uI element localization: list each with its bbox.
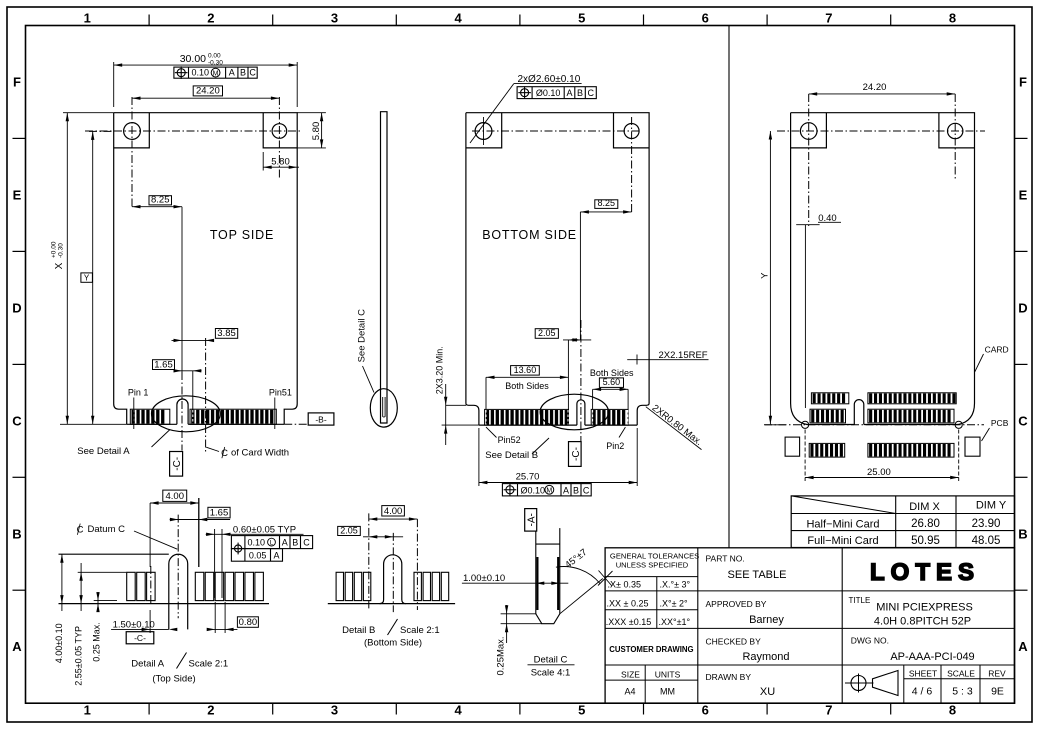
svg-text:B: B [577,88,583,98]
svg-text:CARD: CARD [985,344,1009,354]
top side holes horizontal centerline [85,130,302,132]
svg-text:(Bottom Side): (Bottom Side) [364,637,422,648]
detail C card edge profile [535,531,537,614]
svg-text:1.65: 1.65 [210,508,229,519]
dim 3.85 top side [215,329,237,339]
dim 4.00 +-0.10 left vertical [61,554,63,611]
pcb support block left [785,437,800,456]
svg-text:13.60: 13.60 [514,365,537,375]
svg-text:Y: Y [760,272,771,279]
zone row letters [12,75,1028,655]
svg-text:Y: Y [84,273,90,282]
tolerance block lines [605,576,698,578]
svg-text:3.85: 3.85 [217,328,236,339]
dim 45 deg chamfer [560,579,603,614]
detail B ellipse bottom side [540,394,608,430]
svg-text:1: 1 [84,11,91,26]
top side hole centerline left vertical [131,97,133,207]
svg-text:1.65: 1.65 [154,359,173,370]
svg-text:C: C [583,485,590,495]
svg-text:DRAWN BY: DRAWN BY [706,672,752,682]
detail A ellipse top side [152,396,221,432]
svg-text:9E: 9E [991,686,1004,698]
svg-text:C: C [12,413,22,428]
svg-text:0.05: 0.05 [249,551,267,561]
svg-text:-B-: -B- [315,414,327,424]
svg-text:4.00: 4.00 [384,506,403,517]
svg-text:0.10: 0.10 [192,68,210,78]
svg-text:F: F [1019,75,1027,90]
detail C ellipse on side view [370,389,397,427]
pcb pads left group [809,443,845,457]
svg-text:7: 7 [825,703,832,718]
detail A slot centerline [177,515,179,619]
svg-text:8: 8 [949,703,956,718]
svg-text:30.00: 30.00 [180,53,206,65]
bottom side hole left [475,123,492,140]
svg-text:0.00: 0.00 [208,53,221,60]
top side hole centerline right vertical [278,97,280,180]
detail B pin centerline left [368,513,370,610]
svg-text:26.80: 26.80 [911,518,940,530]
datum -C- box top side [170,452,183,477]
dim 8.25 bottom side [595,200,618,209]
svg-text:6: 6 [702,11,709,26]
top side card bottom edge [127,423,177,425]
svg-text:MINI PCIEXPRESS: MINI PCIEXPRESS [876,602,973,614]
svg-text:4.00: 4.00 [166,491,185,502]
svg-text:Detail A: Detail A [131,658,164,669]
svg-text:8.25: 8.25 [598,198,616,208]
dim 0.25 Max left vertical [94,600,117,602]
title block outline [605,548,1014,703]
right view hole right [948,123,963,138]
bottom side mounting tab left [466,113,502,148]
svg-text:C: C [303,538,310,548]
svg-text:1: 1 [84,703,91,718]
detail A key slot [169,554,188,629]
right view card pads lower row left [810,409,846,423]
dim 1.65 top side [153,360,175,370]
svg-text:1.50±0.10: 1.50±0.10 [113,619,155,630]
dim 0.80 detail A [237,617,258,628]
svg-text:Detail C: Detail C [534,655,568,666]
0.40 offset line [804,225,806,408]
svg-text:4 / 6: 4 / 6 [912,686,933,698]
detail B pins left group [336,572,343,600]
svg-text:Both Sides: Both Sides [505,381,549,391]
svg-text:C: C [249,68,256,78]
svg-text:X: X [54,262,65,269]
svg-text:Scale 2:1: Scale 2:1 [400,625,440,636]
svg-text:A: A [229,68,235,78]
title block column dividers [697,548,699,703]
svg-text:+0.00: +0.00 [51,241,58,258]
svg-text:APPROVED BY: APPROVED BY [706,599,767,609]
svg-text:Pin52: Pin52 [498,435,521,445]
dim Y vertical line [92,131,94,424]
svg-text:D: D [1018,300,1027,315]
svg-text:CUSTOMER DRAWING: CUSTOMER DRAWING [609,645,693,654]
svg-text:MM: MM [660,687,675,697]
dim 13.60 bottom side [511,366,540,376]
bottom side hole right [624,124,639,139]
svg-text:.XX ± 0.25: .XX ± 0.25 [607,598,649,608]
svg-text:CHECKED BY: CHECKED BY [706,636,762,646]
side view card profile [381,112,388,423]
bottom side card bottom edge [479,424,577,426]
svg-text:24.20: 24.20 [863,82,887,93]
fcf 25.70 position frame [502,484,591,496]
svg-text:1.00±0.10: 1.00±0.10 [463,573,505,584]
svg-text:A: A [566,88,572,98]
datum -A- box detail C [525,509,537,531]
svg-text:E: E [13,187,22,202]
dim 1.65 detail A [208,507,230,518]
right view mounting tab right [939,113,975,148]
svg-text:0.25 Max.: 0.25 Max. [92,622,102,662]
right view corner circle left [802,421,809,428]
top side key slot [177,399,188,424]
dim 2XR0.80 Max leader [646,407,702,450]
pcb top centerline right view [764,424,984,426]
svg-text:6: 6 [702,703,709,718]
svg-text:Ø0.10: Ø0.10 [536,88,561,98]
svg-text:Pin51: Pin51 [269,388,292,398]
dim 30.00 top side [113,62,115,107]
top side card outline [114,113,298,425]
svg-text:Ø0.10: Ø0.10 [521,485,546,495]
svg-text:48.05: 48.05 [972,535,1001,547]
svg-text:Pin 1: Pin 1 [128,388,149,398]
svg-text:LOTES: LOTES [870,559,980,586]
datum -C- box detail A [126,632,154,644]
svg-text:SCALE: SCALE [947,669,975,679]
dim 4.00 detail B [382,506,405,516]
dim Y boxed label [81,273,93,282]
dim 2.05 detail B [338,526,361,535]
top side mounting tab left [114,113,150,148]
svg-text:SIZE: SIZE [621,669,640,679]
pin51 leader white overlay [274,410,276,424]
bottom side hole left vertical tick [483,117,485,145]
svg-text:24.20: 24.20 [196,86,220,97]
svg-text:2X3.20 Min.: 2X3.20 Min. [434,346,444,394]
svg-text:Scale 2:1: Scale 2:1 [189,658,229,669]
detail B baseline card edge [328,603,455,605]
svg-text:.X°± 2°: .X°± 2° [660,598,689,608]
svg-text:2: 2 [207,703,214,718]
svg-text:2: 2 [207,11,214,26]
detail A pins right group [195,572,204,600]
svg-text:B: B [12,526,21,541]
svg-text:A: A [273,551,279,561]
right column row lines [842,590,1014,592]
svg-text:REV: REV [988,669,1006,679]
svg-text:See Detail B: See Detail B [485,450,538,461]
dim Y top side extension [89,130,114,132]
svg-text:8: 8 [949,11,956,26]
top side hole left [124,123,141,140]
svg-text:25.70: 25.70 [516,472,540,483]
svg-text:0.10: 0.10 [248,538,266,548]
svg-text:4.00±0.10: 4.00±0.10 [54,623,64,663]
bottom side holes horizontal centerline [472,130,642,132]
svg-text:Barney: Barney [749,614,784,626]
svg-text:UNITS: UNITS [655,669,681,679]
svg-text:-0.30: -0.30 [208,60,223,67]
svg-text:3: 3 [331,11,338,26]
svg-text:23.90: 23.90 [972,518,1001,530]
top side mounting tab right [263,113,297,148]
svg-text:.X± 0.35: .X± 0.35 [608,580,641,590]
svg-text:.XXX ±0.15: .XXX ±0.15 [606,617,651,627]
dim 4.00 detail A [163,490,187,501]
svg-text:DIM Y: DIM Y [976,500,1007,512]
svg-text:TOP SIDE: TOP SIDE [210,228,274,242]
fcf 30.00 position frame [174,67,257,78]
svg-text:50.95: 50.95 [911,535,940,547]
pin comb bottom side left group [485,409,569,425]
svg-text:SEE TABLE: SEE TABLE [728,569,787,581]
svg-text:of Card Width: of Card Width [231,448,289,459]
svg-text:DWG NO.: DWG NO. [851,635,889,645]
svg-text:5.80: 5.80 [271,157,290,168]
svg-text:4: 4 [454,703,462,718]
pin comb top side left group [130,409,170,424]
svg-text:A: A [282,538,288,548]
svg-text:See Detail C: See Detail C [357,309,368,362]
vertical section divider line [728,26,730,548]
dim 0.25 Max detail C [501,613,537,615]
svg-text:UNLESS SPECIFIED: UNLESS SPECIFIED [616,560,689,569]
dim 24.20 top side [193,86,222,96]
svg-text:C: C [1018,413,1028,428]
svg-text:E: E [1019,187,1028,202]
svg-text:SHEET: SHEET [909,669,937,679]
dim 2X3.20 Min [445,384,447,445]
bottom side key slot [577,400,585,425]
pin1 leader white overlay [133,410,135,424]
svg-text:Datum C: Datum C [88,524,126,535]
detail A pins left group [127,572,136,600]
svg-text:-C-: -C- [571,447,582,461]
detail B key bump [380,555,406,604]
top side slot centerline to datum C [181,372,183,451]
svg-text:B: B [573,485,579,495]
svg-text:M: M [546,487,552,494]
pin comb bottom side right group [591,409,628,425]
svg-text:GENERAL TOLERANCES: GENERAL TOLERANCES [610,552,699,561]
svg-text:L: L [270,540,274,547]
svg-text:5: 5 [578,703,585,718]
right view mounting tab left [791,113,827,148]
svg-text:-A-: -A- [527,513,538,526]
detail A pin centerline left [150,566,152,605]
right view card pads upper row left [811,393,848,404]
dim X extension lines [63,112,114,114]
zone row ticks [13,138,1028,590]
bottom side card outline [466,113,649,425]
svg-text:PCB: PCB [991,418,1009,428]
svg-text:5.80: 5.80 [311,122,322,141]
third angle projection symbol [851,676,866,691]
svg-text:A: A [1018,639,1028,654]
dim Y right view [769,131,771,424]
svg-text:(Top Side): (Top Side) [152,674,195,685]
bottom side hole right vertical centerline [631,117,633,213]
svg-text:XU: XU [760,686,775,698]
svg-text:Scale 4:1: Scale 4:1 [531,668,571,679]
detail A top surface line [59,553,169,555]
datum -C- box bottom side [569,442,582,467]
svg-text:Pin2: Pin2 [606,441,624,451]
svg-text:Raymond: Raymond [742,651,789,663]
svg-text:Detail B: Detail B [342,625,375,636]
detail B centerline [392,533,394,612]
svg-text:5.60: 5.60 [603,377,621,387]
top side hole right [272,124,287,139]
right view key bump profile [854,400,864,425]
side view slot profile [383,397,385,417]
svg-text:Full−Mini Card: Full−Mini Card [807,535,878,547]
fcf detail A two-row frame [231,536,312,549]
svg-text:-C-: -C- [134,633,146,643]
right view card outline [791,113,975,425]
detail A baseline card edge [59,603,270,605]
svg-text:8.25: 8.25 [151,195,170,206]
svg-text:5 : 3: 5 : 3 [952,686,973,698]
dim 8.25 top side [149,196,172,205]
svg-text:A: A [563,485,569,495]
dim 5.80 below right tab [262,152,264,171]
right view corner circle right [955,421,962,428]
bottom side slot centerline [580,320,582,441]
svg-text:2.05: 2.05 [538,328,556,338]
svg-text:C: C [588,88,595,98]
middle column row lines [698,590,842,592]
ext line white overlays bottom combs [485,410,487,425]
detail C plating thick lines [536,557,538,610]
svg-text:4: 4 [454,11,462,26]
svg-text:.X.°± 3°: .X.°± 3° [660,580,691,590]
svg-text:TITLE: TITLE [849,596,871,605]
right view hole left [800,123,817,140]
svg-text:M: M [213,70,219,77]
svg-text:A: A [12,639,22,654]
pcb pads right group [868,443,954,457]
svg-text:0.80: 0.80 [239,617,258,628]
svg-text:B: B [292,538,298,548]
svg-text:B: B [240,68,246,78]
dim 2.05 bottom side [535,329,558,339]
svg-text:0.25Max.: 0.25Max. [496,636,507,675]
svg-text:A4: A4 [624,687,635,697]
datum -B- box [308,413,334,425]
right view card pads upper row right [868,393,956,404]
svg-text:-0.30: -0.30 [58,243,65,258]
svg-text:BOTTOM SIDE: BOTTOM SIDE [482,228,577,242]
svg-text:F: F [13,75,21,90]
zone column ticks top [149,15,891,715]
svg-text:DIM X: DIM X [909,501,940,513]
svg-text:3: 3 [331,703,338,718]
right view hole vertical centerlines [808,94,810,226]
centerline of card width label [206,447,219,451]
svg-text:4.0H 0.8PITCH 52P: 4.0H 0.8PITCH 52P [874,616,971,628]
svg-text:AP-AAA-PCI-049: AP-AAA-PCI-049 [890,651,974,663]
right view holes horizontal centerline [777,130,985,132]
svg-text:B: B [1018,526,1027,541]
pin comb top side right group [190,409,276,424]
svg-text:See Detail A: See Detail A [77,446,130,457]
ext 1.65 white overlay [192,410,194,424]
svg-text:D: D [12,300,21,315]
dim 5.80 vertical right [297,112,326,114]
bottom side mounting tab right [614,113,650,148]
svg-text:2.05: 2.05 [340,525,358,535]
svg-text:2.55±0.05 TYP: 2.55±0.05 TYP [74,626,84,686]
right view card pads lower row right [868,409,954,423]
svg-text:7: 7 [825,11,832,26]
svg-text:-C-: -C- [172,457,183,471]
svg-text:.XX°±1°: .XX°±1° [659,617,691,627]
svg-text:5: 5 [578,11,585,26]
dim X vertical line [66,113,68,425]
svg-text:Half−Mini Card: Half−Mini Card [806,518,879,530]
dim 2.55 TYP left vertical [78,571,127,573]
detail B pins right group [414,572,421,600]
fcf 2.60 holes position frame [517,87,596,99]
dimension table [791,496,1014,548]
svg-text:PART NO.: PART NO. [706,554,745,564]
card width centerline top side [205,338,207,454]
pcb support block right [965,437,980,456]
sheet scale rev dividers [903,665,905,703]
svg-text:25.00: 25.00 [867,467,891,478]
